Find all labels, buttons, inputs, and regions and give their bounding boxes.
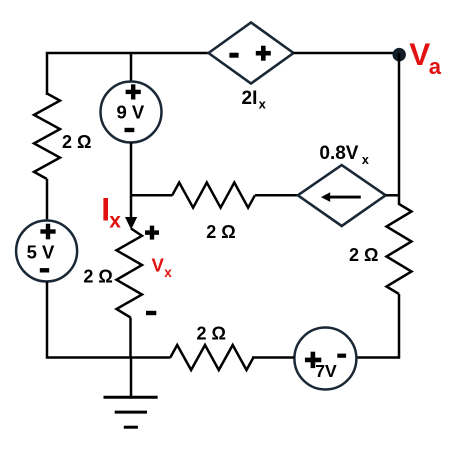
svg-text:2 Ω: 2 Ω [206, 222, 235, 242]
resistor R1 2ohm left [34, 94, 60, 180]
svg-text:x: x [109, 210, 121, 233]
plus sign U1 [256, 46, 271, 61]
node Va dot [393, 48, 406, 61]
wire middle branch junction to resistor [131, 194, 173, 197]
arrow Ix head [125, 217, 137, 230]
svg-text:V: V [409, 36, 430, 72]
wire 5V source to bottom-left corner [47, 282, 171, 358]
svg-text:2 Ω: 2 Ω [83, 267, 112, 287]
wire diamond to node Va [294, 52, 400, 55]
svg-text:7V: 7V [315, 361, 337, 381]
wire right rail from node Va down [398, 53, 401, 205]
svg-text:x: x [259, 97, 267, 112]
svg-text:5 V: 5 V [27, 241, 55, 262]
svg-text:0.8V: 0.8V [319, 143, 358, 164]
wire top wire to 9V source [130, 53, 133, 82]
wire left rail resistor to 5V source [46, 179, 49, 221]
wire 7V source to bottom resistor [252, 356, 294, 359]
ground stub wire [130, 358, 133, 398]
svg-text:9 V: 9 V [117, 101, 145, 122]
svg-text:x: x [362, 153, 369, 167]
plus sign Vx [145, 226, 159, 240]
minus sign U1 [229, 53, 238, 58]
svg-text:2I: 2I [242, 88, 258, 109]
minus sign Vx [146, 311, 156, 315]
wire resistor to dependent source diamond [255, 194, 298, 197]
svg-text:2 Ω: 2 Ω [349, 245, 378, 265]
ground symbol [104, 397, 158, 427]
dependent source U2 diamond (0.8Vx) [298, 165, 386, 226]
wire 9V source down to node with Ix arrow [130, 143, 133, 226]
wire U2 to right rail [386, 194, 399, 197]
resistor R4 2ohm bottom [170, 345, 253, 370]
wire right rail to 7V source [357, 294, 399, 358]
svg-text:2 Ω: 2 Ω [62, 132, 91, 152]
arrow inside U2 pointing left [329, 196, 361, 199]
plus sign V2 [126, 84, 141, 99]
minus sign V3 [337, 354, 346, 358]
dependent source U1 diamond (2Ix) [209, 23, 294, 84]
wire top-left L: left rail top + top wire to diamond [47, 53, 209, 95]
plus sign V3 [305, 352, 321, 368]
svg-text:x: x [164, 265, 172, 280]
svg-text:a: a [429, 54, 442, 79]
voltage source V3 7V [294, 328, 356, 390]
voltage source V2 9V [101, 82, 162, 143]
svg-text:2 Ω: 2 Ω [197, 324, 226, 344]
wire Vx resistor to bottom rail [129, 318, 132, 358]
minus sign V1 [40, 268, 49, 272]
minus sign V2 [125, 128, 135, 132]
resistor R2 2ohm middle horizontal [172, 183, 255, 208]
resistor R3 2ohm right [387, 204, 412, 294]
svg-text:V: V [152, 255, 165, 276]
voltage source V1 5V [16, 221, 77, 282]
plus sign V1 [40, 224, 55, 240]
resistor R5 2ohm Vx vertical [117, 229, 143, 318]
